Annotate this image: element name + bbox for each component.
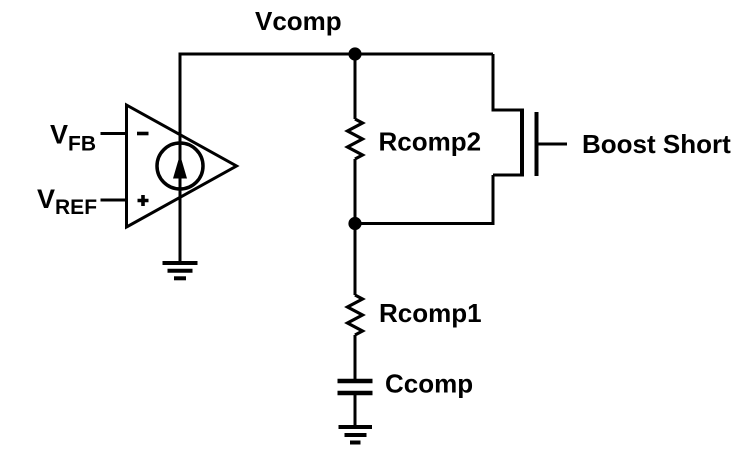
svg-text:Vcomp: Vcomp: [255, 6, 342, 36]
svg-text:Ccomp: Ccomp: [385, 369, 473, 399]
resistor Rcomp1: [348, 295, 363, 335]
current source arrow: [173, 155, 187, 179]
svg-text:Rcomp2: Rcomp2: [379, 127, 482, 157]
op-amp plus input sign: [138, 195, 149, 206]
wire: MOSFET source lead: [493, 174, 522, 177]
ground under op-amp: [163, 263, 198, 278]
op-amp minus input sign: [137, 132, 149, 136]
svg-text:Boost Short: Boost Short: [582, 129, 731, 159]
wire: gate lead: [537, 143, 568, 146]
wire: Vcomp node down to Rcomp2: [354, 54, 357, 119]
resistor Rcomp2: [348, 119, 363, 159]
wire: top horizontal Vcomp rail: [180, 53, 493, 56]
ground under Ccomp: [339, 427, 373, 443]
wire: lower node down to Rcomp1: [354, 224, 357, 296]
svg-text:VFB: VFB: [50, 120, 96, 156]
capacitor Ccomp plates: [338, 381, 373, 393]
svg-text:VREF: VREF: [37, 184, 97, 219]
transistor Q1 channel bar: [520, 109, 524, 177]
current source circle inside op-amp: [157, 143, 203, 189]
wire: VREF input lead: [101, 199, 127, 202]
transistor Q1 gate bar: [535, 112, 539, 176]
junction dot at lower node: [348, 217, 361, 230]
op-amp U1 transconductance amplifier triangle: [127, 105, 237, 227]
junction dot at Vcomp node: [348, 47, 361, 60]
wire: VFB input lead: [101, 132, 127, 135]
svg-text:Rcomp1: Rcomp1: [379, 298, 482, 328]
wire: Rcomp2 to lower node: [354, 159, 357, 224]
wire: Rcomp1 to Ccomp: [354, 335, 357, 379]
wire: lower node to MOSFET source: [355, 175, 493, 224]
wire: amplifier output vertical to ground: [179, 53, 182, 262]
wire: MOSFET drain lead from Vcomp rail: [493, 54, 522, 110]
wire: Ccomp to ground: [354, 395, 357, 425]
